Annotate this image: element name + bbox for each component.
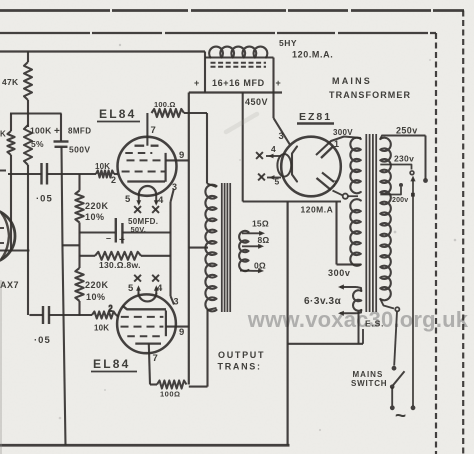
svg-text:220K: 220K bbox=[85, 280, 109, 290]
svg-text:2: 2 bbox=[111, 175, 117, 185]
svg-text:3: 3 bbox=[172, 182, 178, 192]
svg-text:+: + bbox=[119, 235, 126, 246]
svg-text:500V: 500V bbox=[69, 145, 90, 155]
svg-text:8MFD: 8MFD bbox=[68, 127, 91, 136]
svg-text:5: 5 bbox=[125, 194, 131, 205]
svg-text:~: ~ bbox=[395, 406, 407, 427]
svg-text:10%: 10% bbox=[85, 212, 105, 222]
svg-text:EZ81: EZ81 bbox=[299, 111, 332, 123]
svg-text:100K: 100K bbox=[30, 126, 52, 136]
svg-text:5: 5 bbox=[275, 177, 281, 187]
svg-text:6·3v.3α: 6·3v.3α bbox=[304, 296, 342, 307]
svg-text:50V.: 50V. bbox=[131, 225, 147, 234]
svg-text:E.S.: E.S. bbox=[365, 319, 384, 329]
svg-text:1: 1 bbox=[334, 139, 340, 149]
svg-text:TRANS:: TRANS: bbox=[218, 362, 262, 372]
svg-text:EL84: EL84 bbox=[93, 357, 130, 371]
svg-text:AX7: AX7 bbox=[0, 280, 19, 290]
svg-text:47K: 47K bbox=[2, 77, 19, 87]
svg-text:4: 4 bbox=[271, 144, 277, 154]
svg-text:5%: 5% bbox=[31, 139, 44, 149]
svg-text:·05: ·05 bbox=[34, 335, 51, 346]
svg-text:450V: 450V bbox=[245, 97, 268, 107]
svg-text:K: K bbox=[0, 130, 7, 139]
svg-text:120.M.A.: 120.M.A. bbox=[292, 50, 333, 60]
svg-text:9: 9 bbox=[179, 327, 185, 338]
svg-text:SWITCH: SWITCH bbox=[351, 379, 387, 388]
svg-text:220K: 220K bbox=[85, 201, 109, 211]
svg-text:3: 3 bbox=[174, 297, 180, 307]
svg-text:10%: 10% bbox=[86, 292, 106, 302]
svg-text:3: 3 bbox=[279, 131, 285, 142]
svg-text:7: 7 bbox=[153, 353, 159, 364]
svg-text:120M.A: 120M.A bbox=[301, 205, 334, 215]
svg-text:16+16 MFD: 16+16 MFD bbox=[212, 78, 265, 88]
svg-text:7: 7 bbox=[332, 179, 338, 189]
svg-text:300V: 300V bbox=[333, 128, 353, 137]
svg-text:4: 4 bbox=[158, 195, 164, 206]
svg-text:+: + bbox=[194, 78, 200, 88]
svg-text:7: 7 bbox=[151, 125, 157, 136]
svg-text:MAINS: MAINS bbox=[353, 370, 384, 379]
svg-text:OUTPUT: OUTPUT bbox=[218, 350, 265, 360]
svg-text:4: 4 bbox=[157, 283, 163, 294]
svg-text:8Ω: 8Ω bbox=[258, 235, 270, 245]
svg-text:300v: 300v bbox=[328, 268, 350, 278]
svg-text:2: 2 bbox=[108, 304, 114, 314]
svg-text:EL84: EL84 bbox=[99, 107, 136, 121]
svg-text:230v: 230v bbox=[394, 154, 414, 164]
svg-text:MAINS: MAINS bbox=[332, 76, 372, 86]
svg-text:250v: 250v bbox=[396, 126, 418, 136]
svg-text:+: + bbox=[54, 126, 61, 137]
svg-text:130.Ω.8w.: 130.Ω.8w. bbox=[99, 260, 141, 270]
svg-text:–: – bbox=[106, 233, 112, 243]
svg-text:200v: 200v bbox=[392, 197, 408, 204]
svg-text:100.Ω: 100.Ω bbox=[154, 100, 176, 109]
svg-text:TRANSFORMER: TRANSFORMER bbox=[329, 90, 411, 100]
svg-text:15Ω: 15Ω bbox=[252, 219, 269, 229]
svg-text:10K: 10K bbox=[95, 162, 110, 171]
svg-text:+: + bbox=[276, 78, 282, 88]
svg-text:0Ω: 0Ω bbox=[254, 260, 266, 270]
svg-text:5HY: 5HY bbox=[279, 38, 297, 48]
svg-text:5: 5 bbox=[128, 283, 134, 294]
svg-text:9: 9 bbox=[179, 150, 185, 161]
svg-text:·05: ·05 bbox=[36, 194, 53, 205]
svg-text:100Ω: 100Ω bbox=[160, 390, 181, 399]
svg-text:10K: 10K bbox=[94, 324, 109, 333]
